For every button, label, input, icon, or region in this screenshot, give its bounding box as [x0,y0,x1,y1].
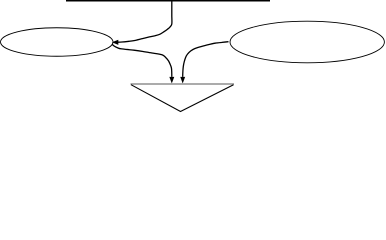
wire: arrow from top box curving left into left ellipse [112,0,172,45]
node: funnel (inverted triangle) gray top edge [131,83,235,85]
node: left ellipse [1,28,114,57]
node: funnel (inverted triangle) sides [131,85,234,112]
node: right ellipse [230,21,384,63]
wire: bottom edge of cropped box at top [66,0,270,2]
wire: arrow from right ellipse into funnel [180,42,228,84]
wire: arrow from left ellipse into funnel [112,44,174,84]
